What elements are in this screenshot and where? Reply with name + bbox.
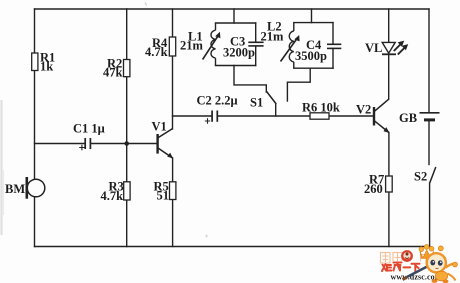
wire tank1 bottom exit to S1 contact a — [234, 66, 266, 93]
svg-text:R6 10k: R6 10k — [302, 101, 340, 115]
svg-text:47k: 47k — [103, 66, 123, 80]
wire R4/collector branch — [172, 9, 174, 129]
wire S1 pole — [275, 104, 277, 117]
wire tank1 right edge upper — [255, 23, 257, 42]
resistor R7 — [386, 176, 393, 192]
wire tank1 right edge lower — [255, 46, 257, 66]
wire base line V1 (C1 to base) — [35, 143, 86, 145]
capacitor C1 (electrolytic) — [79, 138, 90, 150]
svg-text:21m: 21m — [261, 30, 285, 44]
resistor R5 — [170, 182, 176, 200]
capacitor C4 (plates on tank2 right edge) — [327, 44, 341, 48]
wire left rail — [34, 9, 36, 247]
wire tank1 top entry — [233, 9, 235, 23]
switch S2 lever — [430, 167, 436, 183]
battery GB — [420, 113, 440, 120]
wire emitter V1 down — [172, 158, 174, 247]
wire right rail mid (battery - to S2) — [428, 121, 430, 165]
svg-text:260: 260 — [364, 182, 383, 196]
node junction (C1/R2/base) — [124, 141, 129, 146]
wire LED to V2 collector — [388, 54, 390, 99]
wire emitter V2 down through R7 — [388, 133, 390, 247]
wire tank1 loop top — [216, 22, 256, 24]
wire R2/R3 branch — [126, 9, 128, 247]
wire tank2 bottom exit to S1 contact b — [287, 68, 310, 101]
svg-text:V2: V2 — [356, 103, 371, 117]
svg-text:BM: BM — [5, 182, 25, 196]
svg-text:C1 1μ: C1 1μ — [73, 122, 105, 136]
svg-text:S1: S1 — [250, 96, 263, 110]
wire bottom rail — [35, 246, 430, 248]
capacitor C2 (electrolytic) — [205, 111, 218, 124]
watermark red stamp — [401, 250, 413, 262]
svg-text:4.7k: 4.7k — [145, 45, 168, 59]
wire VL branch (top rail to LED) — [388, 9, 390, 42]
resistor R4 — [169, 37, 175, 56]
svg-text:VL: VL — [365, 41, 382, 55]
svg-text:1k: 1k — [40, 60, 53, 74]
transistor V1 — [158, 129, 174, 159]
watermark text weiku yixia — [382, 263, 420, 272]
scan noise smudges (decorative) — [2, 3, 209, 238]
svg-text:S2: S2 — [414, 170, 427, 184]
inductor L1 (adjustable) — [203, 23, 219, 66]
svg-text:3500p: 3500p — [295, 49, 327, 63]
wire tank2 loop bottom — [294, 67, 333, 69]
resistor R3 — [124, 182, 130, 200]
wire tank2 right edge upper — [332, 23, 334, 44]
inductor L2 (adjustable) — [281, 23, 298, 69]
resistor R1 — [32, 53, 38, 71]
wire tank1 loop bottom — [216, 65, 256, 67]
svg-text:4.7k: 4.7k — [101, 189, 124, 203]
resistor R2 — [124, 60, 130, 77]
svg-text:51: 51 — [157, 189, 170, 203]
svg-text:21m: 21m — [180, 39, 204, 53]
LED VL — [382, 41, 408, 55]
wire coupling line (collector V1 to C2 to S1 to R6 to V2 base) — [173, 115, 212, 117]
wire tank2 top entry — [311, 9, 313, 23]
transistor V2 — [374, 99, 390, 133]
watermark faint outline characters — [381, 252, 427, 264]
svg-text:V1: V1 — [152, 120, 167, 134]
wire tank2 loop top — [294, 22, 333, 24]
capacitor C3 (plates on tank1 right edge) — [248, 42, 263, 46]
svg-text:C2 2.2μ: C2 2.2μ — [197, 94, 238, 108]
wire right rail upper (battery +) — [428, 9, 430, 112]
switch S1 lever — [267, 92, 277, 105]
wire tank2 right edge lower — [332, 49, 334, 69]
wire top rail — [35, 8, 430, 10]
resistor R6 (horizontal) — [310, 113, 329, 119]
microphone BM — [27, 177, 45, 199]
wire right rail lower (S2 to bottom) — [429, 183, 431, 247]
watermark mascot — [403, 245, 458, 283]
svg-text:3200p: 3200p — [223, 46, 255, 60]
svg-text:GB: GB — [399, 111, 417, 125]
